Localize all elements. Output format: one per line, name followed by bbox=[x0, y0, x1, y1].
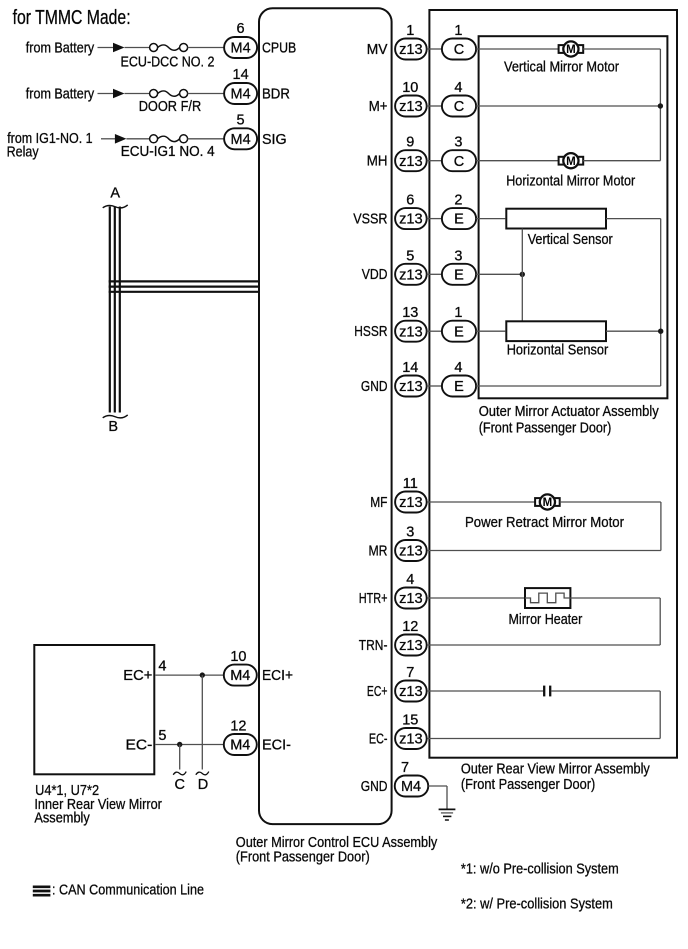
wire M+ to bus bbox=[476, 105, 660, 107]
shield D drop wire bbox=[201, 675, 203, 769]
wire GND to bus bbox=[476, 385, 661, 387]
capacitor (mirror EC) bbox=[543, 686, 545, 697]
wire arrow-to-fuse row 1 bbox=[125, 47, 150, 49]
wire vertical sensor to right bus bbox=[606, 218, 661, 220]
svg-text:C: C bbox=[454, 42, 464, 58]
svg-text:from Battery: from Battery bbox=[26, 41, 95, 57]
svg-text:10: 10 bbox=[402, 80, 418, 96]
connector z13 pin 13 (HSSR) bbox=[395, 321, 427, 342]
svg-text:(Front Passenger Door): (Front Passenger Door) bbox=[461, 777, 595, 793]
svg-text:CPUB: CPUB bbox=[262, 41, 296, 57]
svg-text:E: E bbox=[454, 324, 464, 340]
box Outer Rear View Mirror Assembly bbox=[429, 10, 677, 758]
svg-text:14: 14 bbox=[233, 67, 249, 83]
svg-text:*1: w/o Pre-collision System: *1: w/o Pre-collision System bbox=[461, 862, 619, 878]
svg-text:11: 11 bbox=[403, 476, 418, 492]
connector z13 pin 5 (VDD) bbox=[395, 264, 427, 285]
wire EC+ to ECI+ bbox=[155, 674, 224, 676]
svg-text:z13: z13 bbox=[399, 42, 423, 58]
svg-text:Outer Rear View Mirror Assembl: Outer Rear View Mirror Assembly bbox=[461, 761, 651, 777]
junction D bbox=[200, 672, 205, 677]
svg-text:EC+: EC+ bbox=[367, 684, 388, 700]
svg-text:z13: z13 bbox=[399, 495, 423, 511]
fuse DOOR F/R bbox=[150, 90, 188, 98]
wire fuse-to-connector row 1 bbox=[188, 47, 225, 49]
svg-text:7: 7 bbox=[401, 760, 409, 776]
svg-text:VSSR: VSSR bbox=[353, 211, 387, 227]
svg-text:SIG: SIG bbox=[262, 132, 287, 148]
wire arrow-to-fuse row 2 bbox=[125, 93, 150, 95]
horizontal sensor bbox=[506, 321, 606, 341]
wire fuse-to-connector row 3 bbox=[188, 138, 225, 140]
junction C bbox=[177, 742, 182, 747]
svg-text:Mirror Heater: Mirror Heater bbox=[509, 612, 583, 628]
connector z13 pin 7 (EC+) bbox=[395, 681, 427, 702]
svg-text:ECI-: ECI- bbox=[262, 738, 291, 754]
wire z13-to-C row MH bbox=[427, 160, 442, 162]
svg-text:9: 9 bbox=[406, 135, 414, 151]
svg-text:from Battery: from Battery bbox=[26, 87, 95, 103]
svg-text:6: 6 bbox=[406, 193, 414, 209]
connector z13 pin 6 (VSSR) bbox=[395, 208, 427, 229]
svg-text:HSSR: HSSR bbox=[354, 324, 387, 340]
wire capacitor loop right bbox=[551, 690, 660, 692]
svg-text:z13: z13 bbox=[399, 324, 423, 340]
wire arrow-to-fuse row 3 bbox=[126, 138, 149, 140]
svg-text:MH: MH bbox=[367, 154, 388, 170]
svg-text:3: 3 bbox=[406, 525, 414, 541]
svg-text:B: B bbox=[108, 419, 118, 435]
connector M4 pin 12 (ECI-) bbox=[224, 734, 257, 755]
wire sensor chain vertical bbox=[521, 229, 523, 322]
svg-text:for TMMC Made:: for TMMC Made: bbox=[13, 7, 131, 29]
wire VDD to sensor chain bbox=[476, 273, 522, 275]
svg-text:MF: MF bbox=[370, 495, 387, 511]
wire MV to vertical mirror motor bbox=[476, 48, 559, 50]
svg-text:7: 7 bbox=[406, 665, 414, 681]
wire EC+ to capacitor bbox=[428, 690, 544, 692]
svg-text:z13: z13 bbox=[399, 638, 423, 654]
box Outer Mirror Actuator Assembly bbox=[479, 36, 668, 398]
wire motor2 to bus bbox=[583, 160, 660, 162]
svg-text:Horizontal Sensor: Horizontal Sensor bbox=[507, 343, 609, 359]
connector z13 pin 14 (GND) bbox=[395, 376, 427, 397]
svg-text:5: 5 bbox=[237, 112, 245, 128]
svg-text:ECI+: ECI+ bbox=[262, 668, 293, 684]
svg-text:E: E bbox=[454, 212, 464, 228]
svg-text:Horizontal Mirror Motor: Horizontal Mirror Motor bbox=[506, 174, 635, 190]
svg-text:M: M bbox=[566, 44, 576, 56]
svg-text:DOOR F/R: DOOR F/R bbox=[139, 99, 202, 115]
junction HSSR bus bbox=[658, 329, 663, 334]
svg-text:14: 14 bbox=[402, 360, 418, 376]
legend CAN communication line symbol bbox=[33, 885, 51, 888]
wire z13-to-E row VDD bbox=[427, 273, 442, 275]
svg-text:1: 1 bbox=[454, 23, 462, 39]
wire feed row 1 bbox=[98, 47, 115, 49]
connector z13 pin 4 (HTR+) bbox=[395, 588, 427, 609]
connector z13 pin 15 (EC-) bbox=[395, 728, 427, 749]
arrow row 1 bbox=[113, 43, 125, 53]
svg-text:M4: M4 bbox=[231, 87, 251, 103]
arrow row 3 bbox=[115, 134, 127, 144]
svg-text:M4: M4 bbox=[231, 132, 251, 148]
svg-text:Outer Mirror Actuator Assembly: Outer Mirror Actuator Assembly bbox=[479, 404, 660, 420]
wire EC- return bbox=[428, 738, 661, 740]
svg-text:z13: z13 bbox=[399, 544, 423, 560]
svg-text:z13: z13 bbox=[399, 591, 423, 607]
svg-text:M4: M4 bbox=[401, 779, 421, 795]
svg-text:EC-: EC- bbox=[369, 731, 388, 747]
svg-text:5: 5 bbox=[158, 728, 166, 744]
connector z13 pin 3 (MR) bbox=[395, 540, 427, 561]
svg-text:Outer Mirror Control ECU Assem: Outer Mirror Control ECU Assembly bbox=[236, 835, 438, 851]
wire HSSR to horizontal sensor bbox=[476, 330, 505, 332]
connector M4 pin 14 (BDR) bbox=[224, 83, 257, 104]
svg-text:TRN-: TRN- bbox=[359, 638, 388, 654]
junction M+ bus bbox=[658, 103, 663, 108]
ECU box Outer Mirror Control ECU Assembly bbox=[259, 8, 392, 824]
svg-text:Assembly: Assembly bbox=[34, 811, 90, 827]
wire z13-to-E row HSSR bbox=[427, 330, 442, 332]
svg-text:C: C bbox=[174, 777, 184, 793]
wire sensor right bus vertical bbox=[660, 219, 662, 386]
svg-text:z13: z13 bbox=[399, 99, 423, 115]
connector M4 pin 6 (CPUB) bbox=[224, 37, 257, 58]
svg-text:Power Retract Mirror Motor: Power Retract Mirror Motor bbox=[465, 515, 624, 531]
connector E pin 4 row GND bbox=[442, 376, 476, 397]
wire feed row 2 bbox=[98, 93, 115, 95]
svg-text:Vertical Sensor: Vertical Sensor bbox=[528, 232, 613, 248]
svg-text:BDR: BDR bbox=[262, 87, 290, 103]
wire horizontal sensor to bus bbox=[606, 330, 661, 332]
svg-text:E: E bbox=[454, 379, 464, 395]
svg-text:z13: z13 bbox=[399, 267, 423, 283]
svg-text:Relay: Relay bbox=[7, 145, 40, 161]
svg-text:M4: M4 bbox=[230, 668, 250, 684]
svg-text:M4: M4 bbox=[230, 738, 250, 754]
svg-text:HTR+: HTR+ bbox=[359, 591, 388, 607]
svg-text:13: 13 bbox=[402, 305, 418, 321]
connector M4 pin 10 (ECI+) bbox=[224, 665, 257, 686]
wire heater loop right bbox=[570, 597, 660, 599]
svg-text:EC+: EC+ bbox=[123, 668, 152, 684]
svg-text:1: 1 bbox=[406, 23, 414, 39]
ground symbol bbox=[439, 808, 456, 810]
svg-text:6: 6 bbox=[237, 21, 245, 37]
CAN line top break bbox=[103, 205, 128, 208]
svg-text:15: 15 bbox=[402, 713, 418, 729]
svg-text:MV: MV bbox=[367, 42, 388, 58]
svg-text:M+: M+ bbox=[369, 99, 388, 115]
wire GND to ground bbox=[428, 785, 447, 787]
wire MR return bbox=[428, 550, 661, 552]
svg-text:ECU-DCC NO. 2: ECU-DCC NO. 2 bbox=[121, 54, 215, 70]
svg-text:5: 5 bbox=[406, 248, 414, 264]
svg-text:Vertical Mirror Motor: Vertical Mirror Motor bbox=[504, 59, 619, 75]
wire HTR+ to heater bbox=[428, 597, 524, 599]
connector z13 pin 9 (MH) bbox=[395, 150, 427, 171]
wire feed row 3 bbox=[101, 138, 115, 140]
svg-text:MR: MR bbox=[369, 543, 388, 559]
svg-text:z13: z13 bbox=[399, 684, 423, 700]
svg-text:4: 4 bbox=[406, 572, 414, 588]
connector E pin 2 row VSSR bbox=[442, 208, 476, 229]
svg-text:GND: GND bbox=[361, 779, 388, 795]
motor M2 Horizontal Mirror Motor bbox=[559, 153, 584, 168]
motor M1 Vertical Mirror Motor bbox=[559, 41, 584, 56]
connector C pin 3 row MH bbox=[442, 150, 476, 171]
vertical sensor bbox=[506, 209, 606, 229]
wire TRN- return bbox=[428, 644, 661, 646]
svg-text:(Front Passenger Door): (Front Passenger Door) bbox=[236, 850, 370, 866]
svg-text:z13: z13 bbox=[399, 154, 423, 170]
wire motor to right bus bbox=[583, 48, 660, 50]
connector M4 pin 7 (GND) bbox=[395, 776, 429, 797]
connector z13 pin 1 (MV) bbox=[395, 39, 427, 60]
wire MH to horizontal mirror motor bbox=[476, 160, 559, 162]
wire VSSR to vertical sensor bbox=[476, 218, 505, 220]
connector C pin 1 row MV bbox=[442, 39, 476, 60]
box Inner Rear View Mirror Assembly (U4/U7) bbox=[34, 645, 154, 774]
wire z13-to-E row GND bbox=[427, 385, 442, 387]
svg-text:3: 3 bbox=[454, 248, 462, 264]
shield C drop wire bbox=[179, 745, 181, 770]
CAN communication line vertical (triple) bbox=[109, 207, 111, 413]
svg-text:z13: z13 bbox=[399, 732, 423, 748]
svg-text:3: 3 bbox=[454, 135, 462, 151]
arrow row 2 bbox=[113, 89, 125, 99]
svg-text:4: 4 bbox=[454, 360, 462, 376]
wire MF to retract motor bbox=[428, 501, 536, 503]
wire EC- to ECI- bbox=[155, 744, 224, 746]
wire right bus vertical (motors) bbox=[659, 49, 661, 161]
connector E pin 3 row VDD bbox=[442, 264, 476, 285]
connector z13 pin 12 (TRN-) bbox=[395, 635, 427, 656]
svg-text:*2: w/ Pre-collision System: *2: w/ Pre-collision System bbox=[461, 897, 613, 913]
connector C pin 4 row M+ bbox=[442, 96, 476, 117]
svg-text:12: 12 bbox=[402, 619, 418, 635]
svg-text:E: E bbox=[454, 267, 464, 283]
fuse ECU-DCC NO. 2 bbox=[150, 44, 188, 52]
junction VDD bbox=[520, 272, 525, 277]
svg-text:12: 12 bbox=[230, 719, 246, 735]
svg-text:M4: M4 bbox=[231, 41, 251, 57]
motor M3 Power Retract Mirror Motor bbox=[535, 494, 560, 509]
svg-text:M: M bbox=[566, 156, 576, 168]
svg-text:(Front Passenger Door): (Front Passenger Door) bbox=[479, 421, 612, 437]
svg-text:D: D bbox=[198, 777, 208, 793]
svg-text:4: 4 bbox=[454, 80, 462, 96]
svg-text:z13: z13 bbox=[399, 379, 423, 395]
svg-text:ECU-IG1 NO. 4: ECU-IG1 NO. 4 bbox=[121, 144, 215, 160]
connector M4 pin 5 (SIG) bbox=[224, 128, 257, 149]
svg-text:A: A bbox=[110, 186, 120, 202]
svg-text:VDD: VDD bbox=[362, 267, 388, 283]
fuse ECU-IG1 NO. 4 bbox=[150, 135, 188, 143]
connector E pin 1 row HSSR bbox=[442, 321, 476, 342]
svg-text:10: 10 bbox=[230, 649, 246, 665]
svg-text:GND: GND bbox=[361, 379, 388, 395]
wire retract motor loop right bbox=[560, 501, 661, 503]
CAN line bottom break bbox=[103, 415, 128, 418]
wire z13-to-E row VSSR bbox=[427, 218, 442, 220]
svg-text:C: C bbox=[454, 99, 464, 115]
mirror heater element bbox=[525, 588, 570, 608]
CAN communication line branch to ECU (triple) bbox=[109, 280, 259, 282]
wire z13-to-C row MV bbox=[427, 48, 442, 50]
wire fuse-to-connector row 2 bbox=[188, 93, 225, 95]
wire z13-to-C row M+ bbox=[427, 105, 442, 107]
svg-text:C: C bbox=[454, 154, 464, 170]
svg-text:2: 2 bbox=[454, 193, 462, 209]
svg-text:1: 1 bbox=[454, 305, 462, 321]
connector z13 pin 11 (MF) bbox=[395, 492, 427, 513]
svg-text:: CAN Communication Line: : CAN Communication Line bbox=[52, 883, 204, 899]
svg-text:M: M bbox=[543, 497, 553, 509]
connector z13 pin 10 (M+) bbox=[395, 96, 427, 117]
svg-text:EC-: EC- bbox=[126, 738, 153, 754]
svg-text:4: 4 bbox=[158, 659, 166, 675]
svg-text:z13: z13 bbox=[399, 212, 423, 228]
